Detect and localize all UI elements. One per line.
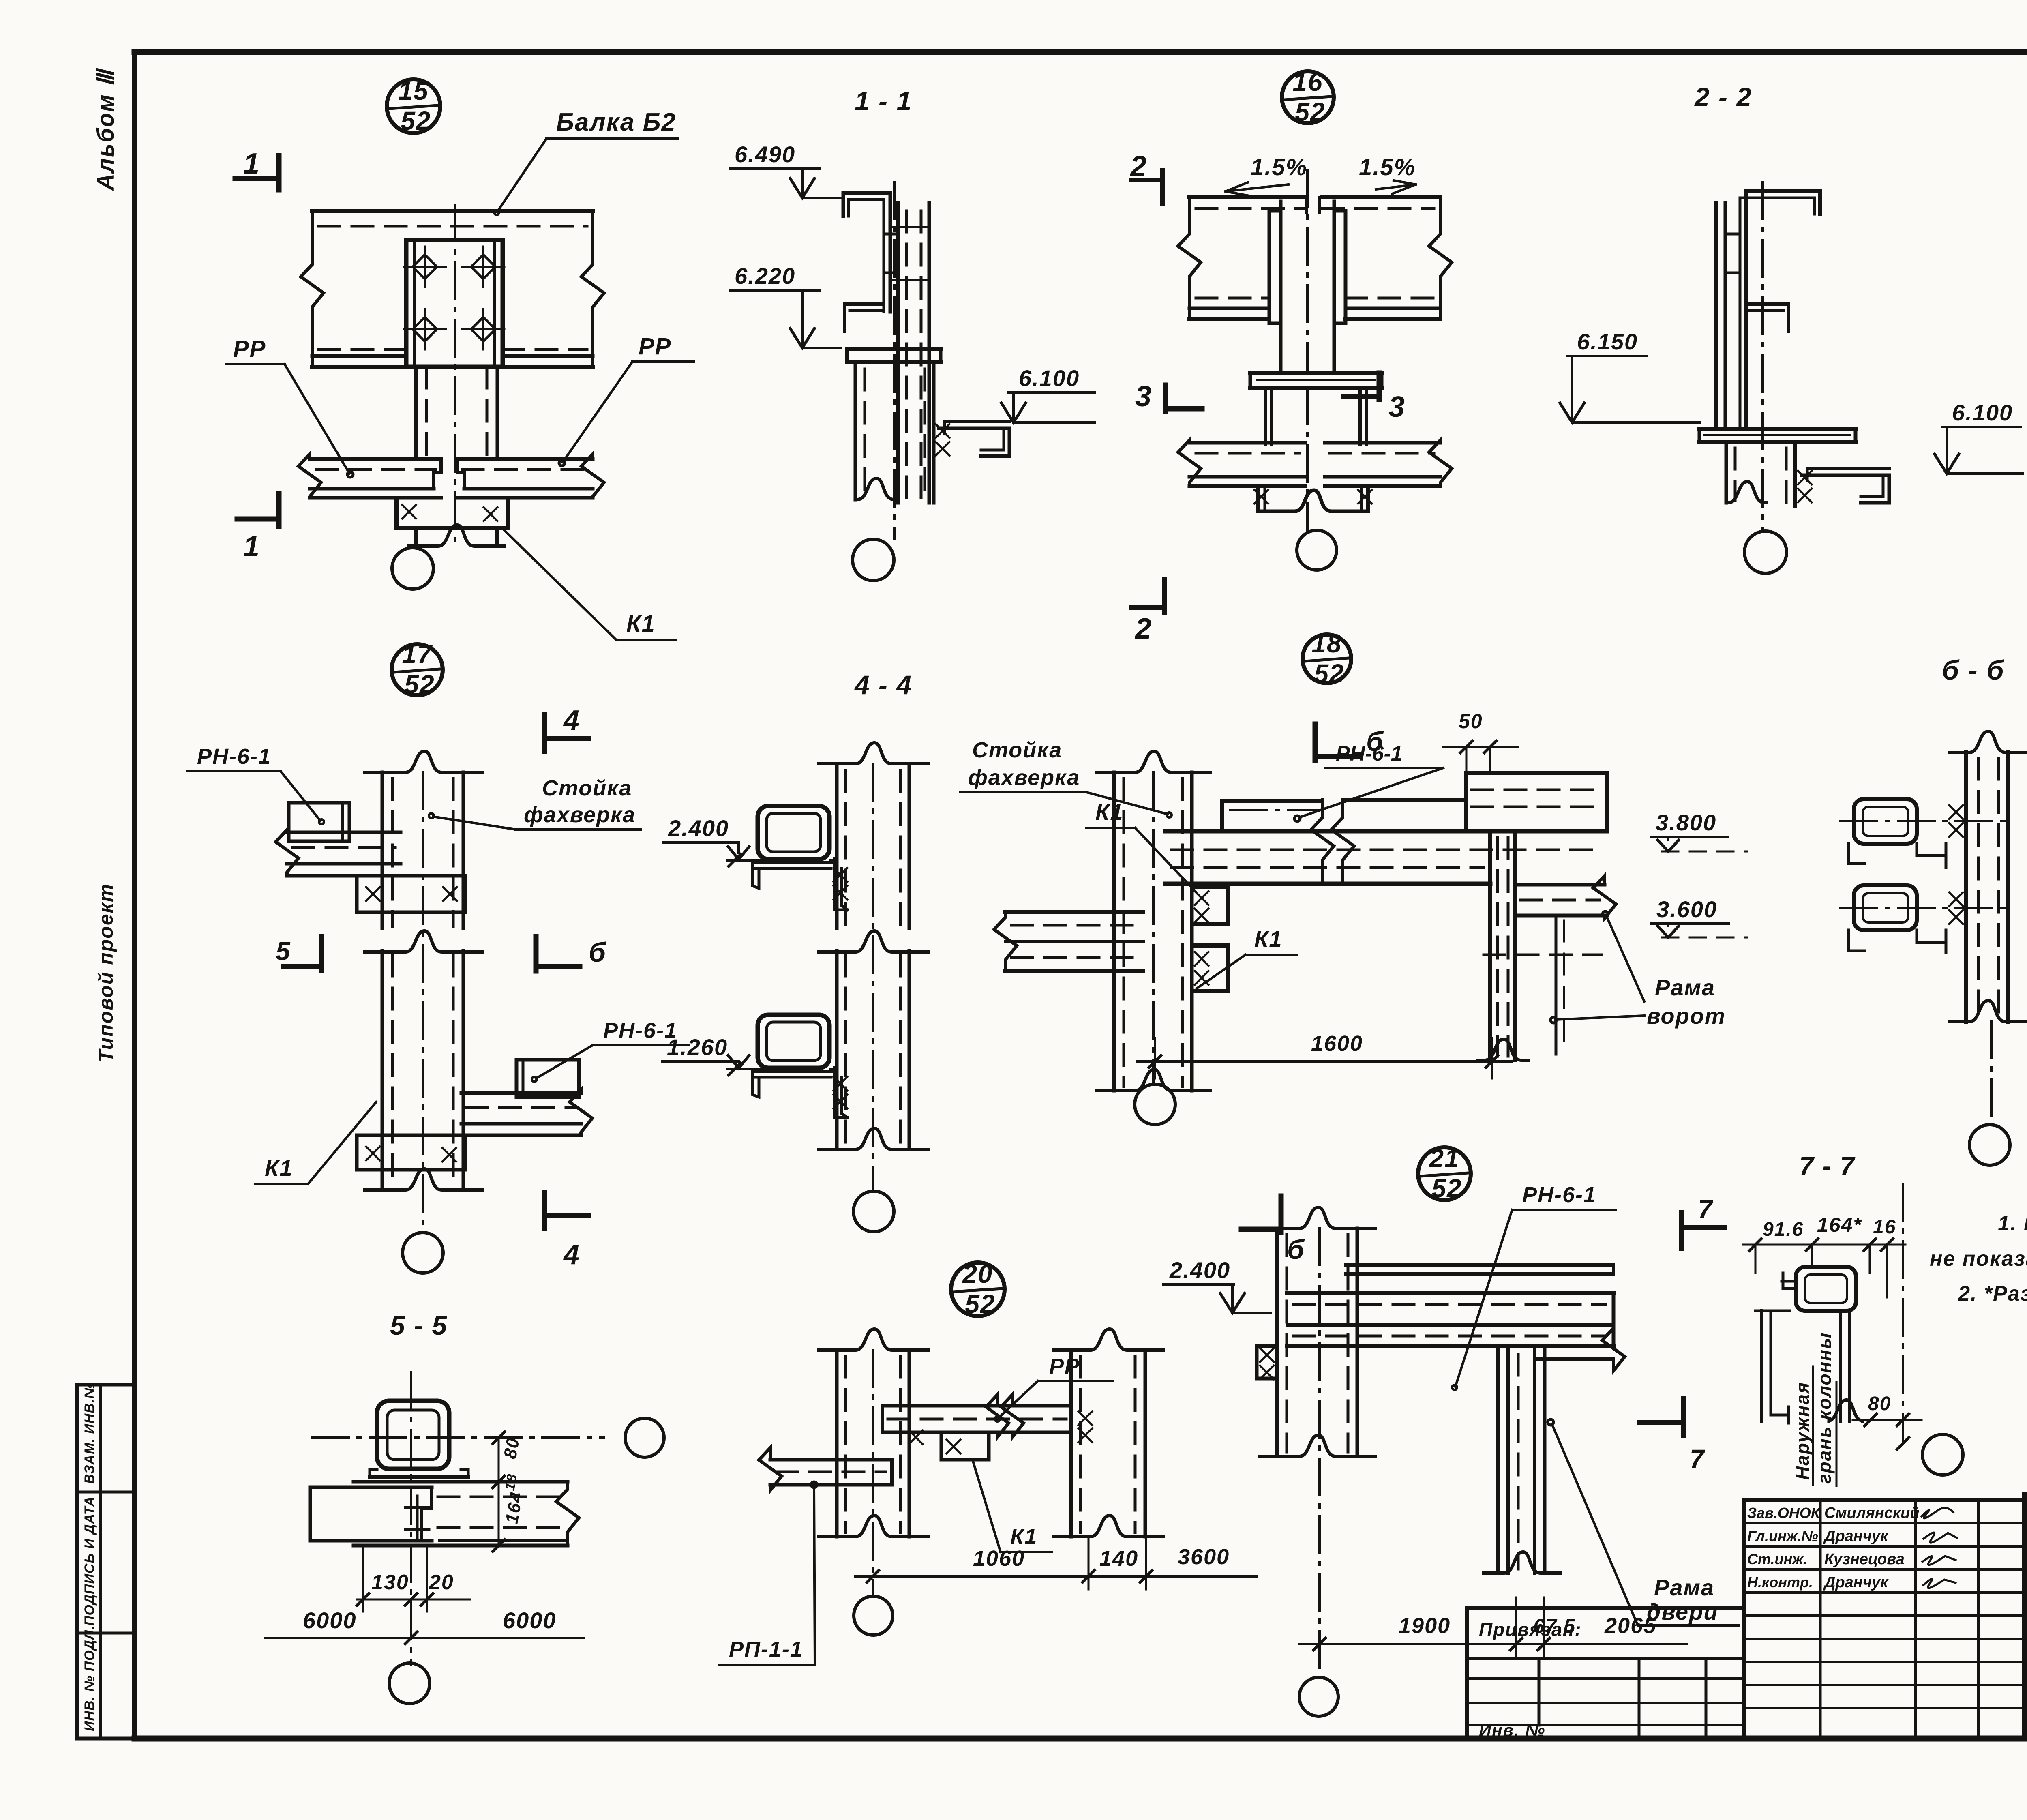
axis circle 5-5	[389, 1663, 430, 1704]
section title 6-6	[1942, 655, 2005, 686]
axis 7-7	[1897, 1184, 1909, 1449]
svg-text:Рама: Рама	[1654, 1575, 1714, 1600]
section mark 7 top	[1681, 1195, 1725, 1249]
svg-text:3600: 3600	[1178, 1545, 1230, 1569]
svg-text:140: 140	[1099, 1546, 1138, 1571]
margin text tipovoy proekt	[94, 883, 117, 1062]
gusset plate	[406, 240, 503, 367]
title block grid	[2025, 1495, 2027, 1739]
weld 16	[1254, 490, 1372, 504]
section mark 4 bottom	[545, 1192, 589, 1270]
elevation 6.100 sec2	[1935, 400, 2023, 474]
label RN-6-1 21	[1452, 1183, 1616, 1390]
svg-text:164: 164	[502, 1490, 527, 1525]
svg-text:РП-1-1: РП-1-1	[729, 1637, 803, 1661]
node badge 17/52	[392, 640, 443, 699]
svg-text:5: 5	[276, 937, 291, 966]
svg-text:Гл.инж.№: Гл.инж.№	[1747, 1528, 1818, 1544]
svg-text:50: 50	[1459, 710, 1483, 733]
svg-text:5 - 5: 5 - 5	[390, 1310, 448, 1340]
svg-text:б - б: б - б	[1942, 655, 2005, 686]
svg-text:К1: К1	[1254, 926, 1283, 952]
column 20 left	[819, 1329, 928, 1595]
beam B2 web	[312, 211, 593, 367]
axis circle 15	[392, 547, 433, 589]
svg-text:фахверка: фахверка	[524, 803, 636, 827]
svg-text:Н.контр.: Н.контр.	[1747, 1574, 1813, 1591]
svg-text:Привязан:: Привязан:	[1479, 1619, 1582, 1640]
section mark b bottom18	[1241, 1196, 1305, 1265]
label K1 18b	[1197, 926, 1297, 988]
girt right 16	[1325, 440, 1452, 487]
dims 91.6 164 16	[1743, 1213, 1905, 1297]
column axis 1-1	[893, 182, 896, 539]
svg-text:3: 3	[1388, 391, 1406, 423]
svg-text:20: 20	[429, 1571, 454, 1594]
column flange 2-2	[1716, 203, 1740, 429]
section title 2-2	[1694, 82, 1752, 112]
svg-text:2. *Размер для справок.: 2. *Размер для справок.	[1958, 1282, 2027, 1306]
svg-text:б: б	[589, 937, 606, 968]
svg-text:17: 17	[402, 640, 433, 669]
svg-text:4 - 4: 4 - 4	[854, 670, 912, 700]
slope 1.5 left	[1226, 154, 1307, 196]
svg-text:РР: РР	[1049, 1354, 1080, 1378]
svg-text:К1: К1	[1010, 1524, 1037, 1549]
left stamp boxes	[77, 1385, 135, 1739]
stamp signatures	[1922, 1508, 1957, 1588]
margin text album III	[92, 67, 119, 191]
seat plate 5-5	[370, 1470, 468, 1477]
svg-text:52: 52	[1295, 97, 1325, 126]
beam right 16	[1322, 197, 1452, 319]
girt left 16	[1178, 440, 1305, 487]
axis circle 21	[1299, 1677, 1338, 1716]
label rama dveri 21	[1548, 1419, 1739, 1625]
column 2-2	[1726, 442, 1795, 506]
label K1	[504, 529, 676, 640]
svg-text:1900: 1900	[1399, 1614, 1451, 1638]
svg-text:Дранчук: Дранчук	[1823, 1574, 1889, 1591]
svg-text:6.490: 6.490	[735, 141, 795, 167]
bolt crosses 5-5	[405, 1496, 429, 1541]
svg-text:7: 7	[1690, 1444, 1706, 1473]
cap plate 1-1	[847, 349, 941, 362]
axis circle 5-5 right	[625, 1418, 664, 1457]
svg-text:16: 16	[1873, 1216, 1896, 1238]
svg-text:4: 4	[563, 704, 580, 736]
girt lower band 17	[461, 1090, 592, 1135]
svg-text:6000: 6000	[503, 1608, 557, 1633]
svg-text:Ст.инж.: Ст.инж.	[1747, 1551, 1807, 1567]
connector plate K1	[396, 498, 508, 546]
svg-text:б: б	[1287, 1234, 1305, 1265]
weld bracket 2-2	[1798, 471, 1812, 502]
door frame 21	[1484, 1346, 1561, 1573]
elevation 6.100 sec1	[1001, 365, 1095, 422]
section mark 2 bottom	[1131, 579, 1164, 645]
column K1 top stub	[416, 367, 497, 459]
girt band B 18	[1343, 798, 1466, 802]
svg-text:ворот: ворот	[1647, 1003, 1726, 1029]
svg-text:Рама: Рама	[1655, 975, 1715, 1000]
svg-text:80: 80	[500, 1436, 523, 1460]
svg-text:Зав.ОНОК: Зав.ОНОК	[1747, 1505, 1821, 1521]
label RR right	[559, 333, 694, 466]
svg-text:4: 4	[563, 1239, 580, 1270]
svg-text:2.400: 2.400	[1169, 1257, 1230, 1283]
stamp names	[1747, 1505, 1920, 1591]
svg-text:80: 80	[1868, 1393, 1891, 1415]
bracket box 16	[1258, 486, 1368, 511]
box girt 7-7	[1782, 1267, 1856, 1311]
column 20 right	[1054, 1329, 1163, 1537]
svg-text:К1: К1	[626, 611, 656, 637]
svg-text:1.5%: 1.5%	[1251, 154, 1307, 180]
axis circle 1-1	[853, 539, 894, 581]
girt lower right 21	[1536, 1328, 1625, 1371]
svg-text:6000: 6000	[303, 1608, 357, 1633]
door leaf 18	[1556, 915, 1564, 1054]
svg-text:7 - 7: 7 - 7	[1799, 1151, 1856, 1181]
svg-text:Наружная: Наружная	[1792, 1382, 1813, 1480]
dim 1060 140 3600	[855, 1537, 1257, 1589]
girt break 18	[1311, 800, 1354, 884]
weld K lower 17	[366, 1147, 456, 1162]
plate K lower 17	[357, 1135, 465, 1170]
label Balka B2	[494, 108, 678, 215]
svg-text:1: 1	[243, 148, 260, 180]
section title 1-1	[855, 86, 912, 116]
svg-text:Альбом Ⅲ: Альбом Ⅲ	[92, 67, 119, 191]
flashing 7-7	[1755, 1311, 1790, 1423]
section title 5-5	[390, 1310, 448, 1340]
svg-text:18: 18	[502, 1473, 520, 1492]
vertical text inv podl	[82, 1625, 97, 1731]
svg-text:Балка Б2: Балка Б2	[556, 108, 676, 136]
svg-text:52: 52	[404, 670, 435, 699]
girt left 18	[994, 912, 1143, 971]
column flange 1-1	[884, 203, 929, 503]
girt upper band 17	[276, 830, 401, 876]
vertical text podpis	[82, 1496, 97, 1626]
svg-text:3.800: 3.800	[1656, 810, 1716, 835]
svg-text:2 - 2: 2 - 2	[1694, 82, 1752, 112]
elevation 2.400 44	[663, 815, 749, 860]
node badge 16/52	[1282, 67, 1334, 126]
weld 4-4 lower	[834, 1077, 847, 1108]
weld 4-4 upper	[834, 868, 847, 900]
svg-text:52: 52	[965, 1289, 995, 1318]
axis lines 6-6	[1841, 821, 2011, 908]
weld 20b	[1078, 1411, 1092, 1442]
label K1 20	[973, 1461, 1052, 1552]
label stoyka fakhverka 17	[429, 776, 641, 830]
cap plate 2-2	[1699, 429, 1856, 442]
weld bracket 1-1	[936, 424, 949, 456]
svg-text:2.400: 2.400	[668, 815, 729, 841]
section mark 2 top	[1129, 150, 1162, 204]
column 21	[1260, 1207, 1375, 1676]
label RR left	[226, 336, 353, 477]
svg-text:Дранчук: Дранчук	[1823, 1528, 1889, 1545]
stamp table grid	[1744, 1500, 2025, 1739]
svg-text:Типовой проект: Типовой проект	[94, 883, 117, 1062]
section mark 4 top	[545, 704, 589, 751]
svg-text:7: 7	[1698, 1195, 1714, 1224]
dim 80 18 55	[493, 1432, 527, 1551]
node badge 21/52	[1418, 1144, 1471, 1203]
dim 6000 55	[266, 1608, 584, 1644]
svg-text:2: 2	[1134, 613, 1152, 645]
svg-text:1: 1	[243, 530, 260, 563]
box girt upper 4-4	[728, 806, 847, 910]
svg-text:6.150: 6.150	[1577, 329, 1638, 354]
svg-text:РН-6-1: РН-6-1	[197, 744, 271, 769]
girt main 21	[1287, 1293, 1613, 1346]
channel girt 2-2	[1740, 191, 1820, 429]
svg-text:1.5%: 1.5%	[1359, 154, 1416, 180]
svg-text:1. В узлах 15 и 16 прогоны п: 1. В узлах 15 и 16 прогоны покрытия усло…	[1998, 1212, 2027, 1235]
svg-text:3: 3	[1135, 380, 1152, 413]
girt main band 18	[1166, 831, 1607, 884]
svg-text:52: 52	[1314, 659, 1344, 688]
section title 4-4	[854, 670, 912, 700]
notes text	[1930, 1212, 2027, 1306]
svg-text:не показаны.: не показаны.	[1930, 1247, 2027, 1271]
svg-text:18: 18	[1311, 629, 1342, 658]
svg-text:20: 20	[962, 1259, 993, 1288]
axis circle 20	[854, 1596, 893, 1635]
girt plan 5-5	[310, 1482, 579, 1546]
node badge 18/52	[1303, 629, 1351, 688]
svg-text:6.100: 6.100	[1019, 365, 1080, 391]
svg-text:2065: 2065	[1604, 1614, 1656, 1638]
column 4-4	[819, 743, 928, 1190]
svg-text:РР: РР	[639, 333, 671, 360]
svg-text:РН-6-1: РН-6-1	[1336, 742, 1403, 765]
box column 5-5	[377, 1401, 449, 1469]
privyazan table	[1467, 1608, 1744, 1739]
axis circle 16	[1297, 388, 1337, 570]
column axis 2-2	[1761, 182, 1764, 531]
dim 130 20 55	[357, 1546, 470, 1612]
section mark 1 bottom	[237, 494, 279, 563]
svg-text:грань колонны: грань колонны	[1814, 1332, 1835, 1484]
axis circle 4-4	[853, 1191, 894, 1232]
label RP-1-1	[720, 1482, 817, 1665]
axis circle 6-6	[1969, 1022, 2010, 1165]
girt RR 20	[883, 1395, 1071, 1437]
svg-text:6.100: 6.100	[1952, 400, 2013, 425]
label RN-6-1 mid17	[532, 1018, 689, 1082]
weld 6-6	[1949, 805, 1963, 924]
weld K upper 17	[366, 887, 457, 901]
column 18	[1097, 751, 1210, 1091]
gate band 18	[1515, 876, 1616, 918]
elevation 3.800 66	[1651, 810, 1747, 851]
node badge 20/52	[951, 1259, 1005, 1318]
section title 7-7	[1799, 1151, 1856, 1181]
plate K1 18b	[1192, 945, 1228, 991]
svg-text:164*: 164*	[1817, 1213, 1862, 1236]
weld 21	[1260, 1348, 1274, 1379]
axis circle 7-7	[1922, 1434, 1963, 1475]
label RR 20	[995, 1354, 1113, 1421]
section mark b mid	[536, 937, 606, 971]
column 1-1	[855, 362, 934, 503]
svg-text:РН-6-1: РН-6-1	[1522, 1183, 1596, 1207]
svg-text:1.260: 1.260	[667, 1034, 728, 1060]
elevation 2.400 21	[1163, 1257, 1271, 1313]
gate dashed 18	[1484, 954, 1601, 956]
column 6-6	[1950, 731, 2025, 1022]
beam left 16	[1178, 197, 1305, 319]
plate K1 18a	[1192, 887, 1228, 924]
channel girt top 1-1	[843, 193, 890, 331]
vertical text vzam inv	[82, 1383, 97, 1484]
svg-text:1 - 1: 1 - 1	[855, 86, 912, 116]
elevation 3.600 66	[1652, 896, 1747, 937]
box girt 6-6 upper	[1849, 799, 1946, 868]
girt lower box 17	[516, 1060, 579, 1097]
svg-text:1600: 1600	[1311, 1031, 1363, 1056]
box girt lower 4-4	[728, 1015, 847, 1117]
section mark 3 right	[1344, 373, 1406, 423]
label rama vorot 18	[1551, 911, 1726, 1029]
section mark 3 left	[1135, 380, 1202, 413]
label RN-6-1 top17	[187, 744, 324, 824]
door post 18	[1478, 831, 1528, 1060]
box girt 6-6 lower	[1849, 885, 1946, 953]
dim 1900 675 2065	[1299, 1597, 1686, 1656]
dim 80 7-7	[1853, 1393, 1922, 1426]
support bracket 1-1	[939, 422, 1009, 456]
beam B2 break edges	[301, 211, 604, 367]
label stoyka fakhverka 18	[960, 738, 1172, 817]
section mark 5	[276, 937, 322, 971]
svg-text:Стойка: Стойка	[972, 738, 1062, 762]
weld marks K1	[402, 505, 497, 521]
girt upper box 17	[289, 803, 349, 841]
axis circle 17	[403, 1233, 443, 1273]
svg-text:15: 15	[398, 76, 429, 105]
svg-text:РН-6-1: РН-6-1	[603, 1018, 677, 1043]
svg-text:Смилянский: Смилянский	[1824, 1505, 1920, 1522]
support bracket 2-2	[1802, 469, 1889, 503]
svg-text:Стойка: Стойка	[542, 776, 632, 800]
girt top band 21	[1346, 1265, 1613, 1274]
svg-text:ИНВ. № ПОДЛ.: ИНВ. № ПОДЛ.	[82, 1625, 97, 1731]
bolts on plate	[404, 247, 504, 349]
axis circle 18	[1135, 1084, 1175, 1125]
svg-text:52: 52	[401, 106, 431, 135]
svg-text:21: 21	[1429, 1144, 1459, 1173]
girt RR left	[298, 454, 441, 498]
label K1 17	[255, 1102, 376, 1184]
plate K upper 17	[357, 876, 465, 912]
privyazan text	[1479, 1619, 1582, 1640]
svg-text:Кузнецова: Кузнецова	[1824, 1551, 1905, 1568]
beam gap verticals 16	[1306, 197, 1320, 212]
svg-text:К1: К1	[265, 1155, 293, 1181]
girt band A 18	[1222, 801, 1321, 831]
slope 1.5 right	[1359, 154, 1416, 194]
label naruzh gran 7-7	[1792, 1332, 1836, 1486]
legs 16	[1266, 388, 1366, 445]
girt RP 20	[759, 1448, 892, 1490]
plate K1 20	[941, 1432, 989, 1460]
plate K1 21	[1257, 1346, 1277, 1378]
svg-text:52: 52	[1431, 1174, 1462, 1203]
girt band C 18	[1466, 773, 1607, 831]
door post 7-7	[1828, 1311, 1864, 1421]
inv no text	[1479, 1721, 1545, 1740]
svg-text:16: 16	[1292, 67, 1323, 96]
weld 20	[909, 1430, 960, 1453]
label K1 18a	[1086, 799, 1196, 892]
axis circle 2-2	[1744, 531, 1787, 573]
svg-text:ПОДПИСЬ И ДАТА: ПОДПИСЬ И ДАТА	[82, 1496, 97, 1626]
elevation 6.220	[730, 263, 841, 348]
svg-text:фахверка: фахверка	[968, 765, 1080, 790]
cap plate 16	[1250, 373, 1382, 388]
section mark b top18	[1315, 724, 1384, 761]
axis cross 5-5	[312, 1372, 604, 1664]
elevation 6.150	[1560, 329, 1699, 422]
label RN-6-1 18	[1294, 742, 1443, 821]
svg-text:двери: двери	[1647, 1599, 1718, 1625]
elevation 6.490	[730, 141, 841, 198]
svg-text:3.600: 3.600	[1656, 896, 1717, 922]
svg-text:К1: К1	[1095, 799, 1124, 825]
dim 1600 18	[1137, 1031, 1512, 1078]
column axis	[454, 205, 456, 547]
svg-text:91.6: 91.6	[1763, 1219, 1804, 1240]
svg-text:Инв. №: Инв. №	[1479, 1721, 1545, 1740]
column plate 16	[1269, 170, 1346, 373]
girt RR right	[457, 454, 604, 498]
svg-text:6.220: 6.220	[735, 263, 795, 289]
svg-text:ВЗАМ. ИНВ.№: ВЗАМ. ИНВ.№	[82, 1383, 97, 1484]
svg-text:130: 130	[371, 1571, 409, 1594]
elevation 1.260 44	[662, 1034, 749, 1068]
section mark 1 top	[235, 148, 279, 190]
section mark 7 bottom	[1639, 1399, 1706, 1473]
weld 18a	[1195, 891, 1208, 922]
weld 18b	[1195, 952, 1208, 985]
column 17	[365, 751, 482, 1230]
svg-text:РР: РР	[233, 336, 266, 362]
dim 50 18	[1443, 710, 1518, 770]
node badge 15/52	[387, 76, 440, 135]
svg-text:1060: 1060	[973, 1546, 1025, 1571]
